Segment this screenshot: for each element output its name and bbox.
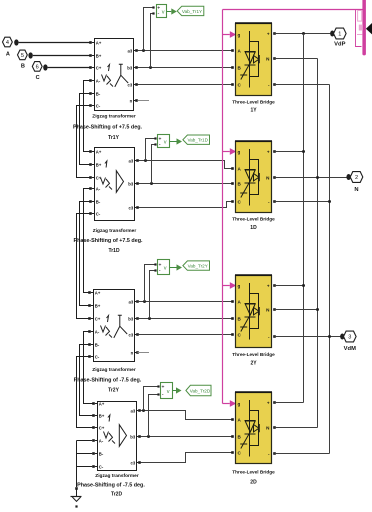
svg-text:C: C [36, 75, 40, 81]
black arrow into bar [366, 23, 372, 34]
goto tag Vab_Tr1Y [177, 6, 204, 15]
voltage measurement V Vab_Tr2D [157, 383, 181, 399]
voltage measurement V Vab_Tr1D [154, 135, 182, 149]
junction dot N bus [316, 176, 319, 179]
svg-text:B+: B+ [95, 303, 101, 308]
svg-text:C+: C+ [99, 425, 105, 430]
wire Tr1 c3 to bridge1Y C [137, 84, 232, 86]
junction dot 2Y+ [302, 284, 305, 287]
three-level bridge 1Y [231, 23, 276, 114]
svg-text:Three-Level Bridge: Three-Level Bridge [232, 217, 275, 222]
wire bridge1D - [274, 201, 329, 203]
svg-text:g: g [238, 402, 241, 407]
junction dot 1D+ [302, 150, 305, 153]
svg-text:+: + [267, 150, 270, 155]
svg-text:c3: c3 [129, 332, 134, 337]
wire Tr4 A- to ground bus [77, 440, 93, 442]
tap dot V2+ [144, 159, 147, 162]
svg-text:b3: b3 [128, 316, 134, 321]
wire Tr3 c3 to bridge2Y C [137, 334, 232, 336]
svg-text:n: n [130, 98, 133, 103]
outport 1 VdP [330, 28, 346, 47]
voltage measurement V Vab_Tr2Y [154, 260, 182, 275]
svg-text:Zigzag transformer: Zigzag transformer [93, 228, 137, 234]
svg-text:-: - [158, 11, 160, 17]
zigzag transformer Tr2D [77, 401, 145, 497]
svg-text:-: - [162, 392, 164, 398]
inport 5 (B) [18, 50, 28, 70]
svg-text:A+: A+ [95, 290, 101, 295]
tap dot V2- [150, 182, 153, 185]
tap dot V1+ [142, 49, 145, 52]
wire bridge1D N to port N [274, 177, 347, 179]
wire Vab_Tr1D - input [152, 145, 155, 184]
outport 2 N [346, 172, 362, 193]
wire bridge2Y - to VdM [274, 336, 341, 338]
svg-text:v: v [167, 389, 170, 395]
wire Tr2 a3 to bridge1D A [139, 161, 233, 169]
wire Tr2 C- to Tr3 C+ [77, 214, 90, 319]
svg-text:-: - [159, 142, 161, 148]
three-level bridge 2D [231, 392, 276, 486]
svg-text:Vab_Tr1Y: Vab_Tr1Y [182, 9, 202, 14]
wire bridge1D + [274, 151, 303, 153]
wire Tr3 n stub [137, 352, 149, 354]
svg-text:C-: C- [96, 103, 101, 108]
magenta gate branch 1D [223, 151, 230, 153]
wire Tr1 b3 to bridge1Y B [137, 67, 232, 69]
junction dot +bus top [302, 32, 305, 35]
pink stub line [357, 34, 362, 36]
svg-text:Vab_Tr2Y: Vab_Tr2Y [188, 263, 208, 268]
svg-text:g: g [238, 150, 241, 155]
wire bridge1Y - [274, 84, 329, 86]
svg-text:Three-Level Bridge: Three-Level Bridge [232, 100, 275, 105]
svg-text:+: + [267, 284, 270, 289]
three-level bridge 2Y [231, 275, 276, 366]
svg-text:g: g [238, 33, 241, 38]
tap dot V3- [148, 317, 151, 320]
magenta gate bus vertical [222, 10, 224, 404]
svg-text:b3: b3 [127, 65, 133, 70]
svg-text:VdP: VdP [334, 42, 345, 48]
junction dot 2Y N [316, 308, 319, 311]
svg-text:C+: C+ [96, 65, 102, 70]
wire Tr1 a3 to bridge1Y A [137, 50, 232, 52]
tap dot V1- [149, 66, 152, 69]
svg-text:Three-Level Bridge: Three-Level Bridge [232, 352, 275, 357]
svg-text:Phase-Shifting of -7.5 deg.: Phase-Shifting of -7.5 deg. [77, 483, 145, 489]
svg-text:Zigzag transformer: Zigzag transformer [95, 473, 139, 479]
ground [75, 487, 78, 490]
tap dot V4+ [142, 409, 145, 412]
wire B to Tr1 B+ [33, 55, 90, 57]
svg-text:Zigzag transformer: Zigzag transformer [92, 367, 136, 373]
wire Tr1 n stub [137, 100, 149, 102]
junction dot B [28, 52, 32, 58]
svg-text:g: g [238, 284, 241, 289]
wire bridge1Y N [274, 58, 317, 60]
magenta gate bus horizontal [223, 9, 363, 11]
wire Vab_Tr2D + input [144, 387, 158, 411]
wire Vab_Tr2Y + input [145, 265, 155, 302]
svg-text:B+: B+ [96, 162, 102, 167]
inport 6 (C) [32, 62, 42, 81]
wire bridge2Y + [274, 285, 303, 287]
wire bridge2D - [274, 453, 329, 455]
svg-text:A-: A- [99, 438, 104, 443]
svg-text:B+: B+ [99, 413, 105, 418]
magenta gate branch 2Y [223, 285, 230, 287]
svg-text:v: v [164, 266, 167, 272]
wire Tr4 c3 to bridge2D C [141, 453, 233, 463]
wire A to Tr1 A+ [19, 42, 90, 44]
svg-text:B-: B- [96, 91, 101, 96]
junction dot 2Y- [328, 335, 331, 338]
wire Tr3 b3 to bridge2Y B [137, 318, 232, 320]
svg-text:Zigzag transformer: Zigzag transformer [92, 113, 136, 119]
svg-text:A-: A- [96, 186, 101, 191]
tap dot V4- [147, 435, 150, 438]
wire Vab_Tr2Y - input [150, 271, 155, 319]
svg-text:N: N [354, 187, 358, 193]
svg-text:A+: A+ [96, 149, 102, 154]
wire Tr4 a3 to bridge2D A [141, 411, 233, 420]
svg-text:1D: 1D [250, 225, 257, 231]
svg-text:c3: c3 [129, 205, 134, 210]
wire Tr3 B- to Tr4 B+ [80, 345, 93, 416]
wire Tr3 a3 to bridge2Y A [137, 301, 232, 303]
svg-text:a3: a3 [131, 408, 136, 413]
svg-text:+: + [267, 401, 270, 406]
svg-text:C+: C+ [95, 316, 101, 321]
svg-text:+: + [162, 384, 165, 390]
wire bridge1Y + to VdP [274, 33, 330, 35]
svg-text:Tr1Y: Tr1Y [108, 135, 120, 141]
pink small rect [358, 11, 362, 22]
wire Tr3 C- to Tr4 C+ [77, 357, 93, 428]
svg-text:3: 3 [348, 335, 351, 341]
zigzag transformer Tr1Y [73, 39, 143, 142]
pink small square [359, 25, 363, 31]
svg-text:C-: C- [99, 464, 104, 469]
wire Tr2 b3 to bridge1D B [138, 183, 232, 185]
svg-text:v: v [164, 140, 167, 146]
svg-text:c3: c3 [131, 460, 136, 465]
wire Tr4 B- to ground bus [77, 453, 93, 455]
wire Tr2 A- to Tr3 A+ [84, 189, 90, 293]
svg-text:2Y: 2Y [250, 360, 257, 366]
goto tag Vab_Tr2D [186, 385, 211, 395]
wire Tr1 B- to Tr2 B+ [80, 94, 90, 165]
wire Tr4 C- to ground bus [77, 466, 93, 468]
magenta gate branch 2D [223, 403, 230, 405]
svg-text:1: 1 [338, 32, 341, 38]
svg-text:B-: B- [96, 199, 101, 204]
wire Vab_Tr2D - input [149, 395, 158, 437]
svg-text:b3: b3 [130, 434, 136, 439]
svg-text:a3: a3 [128, 48, 133, 53]
svg-text:Vab_Tr1D: Vab_Tr1D [187, 138, 208, 143]
goto tag Vab_Tr2Y [183, 261, 210, 270]
svg-text:a3: a3 [129, 158, 134, 163]
svg-text:A-: A- [95, 329, 100, 334]
svg-text:B-: B- [99, 451, 104, 456]
svg-text:a3: a3 [129, 299, 134, 304]
svg-text:B-: B- [95, 342, 100, 347]
wire ground bus vertical [76, 441, 78, 488]
wire Vab_Tr1D + input [146, 139, 155, 161]
wire bridge2D + [274, 402, 303, 404]
minus bus vertical [329, 85, 331, 454]
svg-text:+: + [267, 32, 270, 37]
svg-text:B+: B+ [96, 53, 102, 58]
svg-text:5: 5 [21, 53, 24, 59]
zigzag transformer Tr2Y [74, 290, 142, 394]
svg-text:VdM: VdM [344, 346, 356, 352]
svg-text:Tr2Y: Tr2Y [108, 388, 120, 394]
plus bus vertical [303, 34, 305, 403]
goto tag Vab_Tr1D [183, 135, 210, 144]
svg-text:1Y: 1Y [250, 108, 257, 114]
three-level bridge 1D [231, 141, 276, 231]
svg-text:Vab_Tr2D: Vab_Tr2D [190, 388, 211, 393]
wire bridge2D N [274, 427, 317, 429]
wire Vab_Tr1Y + input [144, 8, 153, 51]
wire Tr3 A- to Tr4 A+ [84, 332, 93, 404]
zigzag transformer Tr1D [73, 148, 143, 255]
magenta gate branch 1Y [223, 34, 230, 36]
junction dot C [43, 64, 47, 70]
svg-text:B: B [21, 64, 25, 70]
svg-text:v: v [162, 10, 165, 16]
tap dot V3+ [143, 300, 146, 303]
svg-text:A+: A+ [96, 40, 102, 45]
svg-text:n: n [131, 350, 134, 355]
wire bridge2Y N [274, 309, 317, 311]
inport 4 (A) [3, 37, 13, 57]
wire Tr4 b3 to bridge2D B [140, 436, 232, 438]
wire Tr2 B- to Tr3 B+ [80, 202, 90, 306]
magenta stub vertical [356, 10, 362, 47]
svg-text:A+: A+ [99, 401, 105, 406]
outport 3 VdM [340, 331, 356, 352]
wire Tr1 C- to Tr2 C+ [77, 106, 90, 178]
svg-text:A: A [6, 52, 10, 58]
N bus vertical [317, 59, 319, 428]
wire C to Tr1 C+ [48, 67, 90, 69]
svg-text:2D: 2D [250, 480, 257, 486]
svg-text:Tr2D: Tr2D [111, 492, 123, 498]
wire Vab_Tr1Y - input [151, 14, 153, 68]
svg-text:2: 2 [355, 175, 358, 181]
svg-text:c3: c3 [128, 82, 133, 87]
svg-text:Three-Level Bridge: Three-Level Bridge [232, 469, 275, 474]
svg-text:C-: C- [96, 211, 101, 216]
svg-text:A-: A- [96, 78, 101, 83]
svg-text:C-: C- [95, 354, 100, 359]
wire Tr2 c3 to bridge1D C [139, 202, 233, 208]
voltage measurement V Vab_Tr1Y [152, 5, 176, 18]
svg-text:4: 4 [6, 40, 9, 46]
svg-text:6: 6 [36, 65, 39, 71]
magenta bar [362, 0, 366, 55]
svg-text:-: - [159, 268, 161, 274]
svg-text:Tr1D: Tr1D [108, 248, 120, 254]
wire Tr1 A- to Tr2 A+ [84, 81, 90, 152]
junction dot 1D- [328, 200, 331, 203]
svg-text:b3: b3 [128, 181, 134, 186]
junction dot A [14, 39, 18, 45]
